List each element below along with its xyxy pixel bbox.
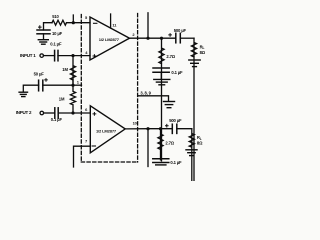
resistor R3 1M [70,73,75,113]
stub wire up from node E1 [147,13,149,38]
ground bar below C8 [156,164,166,166]
svg-text:10 µF: 10 µF [52,31,63,36]
ground for pins 3,8,9 [164,101,175,103]
svg-text:INPUT 1: INPUT 1 [20,53,36,58]
capacitor C8 0.1uF [153,159,169,163]
wire node C to pin 1 [73,84,82,86]
wire pins 3,8,9 to ground [138,96,169,101]
resistor RL2 8 ohm [189,129,194,192]
U1 non-inverting input sign [93,55,96,58]
pin 11 V+ wire [110,14,112,28]
wire output pin 2 [130,37,149,39]
IC package boundary dashed left edge [80,15,82,163]
wire C1 top to R1 [44,23,53,30]
op-amp U1 1/2 LM2877 [90,17,130,60]
V+ stub wire up from node A [72,15,74,23]
capacitor C3 50uF [39,79,48,91]
resistor RL1 8 ohm [191,38,196,194]
wire C1 bottom to ground [43,34,45,40]
wire C2 to pin 4 [58,55,90,57]
svg-text:500 µF: 500 µF [169,118,182,123]
input 2 terminal circle [40,111,44,115]
svg-text:1M: 1M [62,67,68,72]
svg-text:50 µF: 50 µF [34,72,45,77]
node R4 junction dot [160,37,163,40]
wire C6 to RL2 [177,128,192,130]
capacitor C1 10uF [37,26,50,34]
svg-text:2.7Ω: 2.7Ω [165,141,174,146]
svg-text:0.1 µF: 0.1 µF [171,70,183,75]
ground below RL1 [189,59,200,61]
wire C5 to RL1 [180,37,194,39]
svg-text:0.1 µF: 0.1 µF [50,41,62,46]
capacitor C7 0.1uF [153,68,169,72]
svg-text:1M: 1M [59,96,65,101]
svg-text:8Ω: 8Ω [200,50,206,55]
svg-text:0.1 µF: 0.1 µF [170,160,182,165]
wire output pin 10 [125,128,148,130]
svg-text:2.7Ω: 2.7Ω [166,54,175,59]
wire input 2 to C4 [44,112,55,114]
ground below C7 [154,78,170,80]
svg-text:0.1 µF: 0.1 µF [51,117,63,122]
wire input 1 to C2 [44,55,55,57]
node A junction dot [72,21,75,24]
resistor R4 2.7 ohm [159,38,164,161]
U1 inverting input sign [94,22,97,24]
svg-text:INPUT 2: INPUT 2 [16,110,32,115]
capacitor C4 0.1uF [55,108,58,118]
node C bias junction dot [71,84,74,87]
node D junction dot [71,111,74,114]
wire node E2 to C6 [148,128,172,130]
U2 inverting input sign [92,145,95,147]
ground below RL2 [186,149,197,151]
wire node C to C3 [43,84,73,86]
node R5 junction dot [159,127,162,130]
wire C4 to pin 6 [58,112,90,114]
svg-text:500 µF: 500 µF [174,28,187,33]
wire node E1 to C5 [148,37,176,39]
node B junction dot [71,54,74,57]
wire R1 to pin 5 [67,22,91,24]
capacitor C2 0.1uF [55,50,58,60]
op-amp U2 1/2 LM2877 [90,106,125,153]
svg-text:1/2 LM2877: 1/2 LM2877 [96,129,117,134]
ground at C3 [19,91,27,93]
ground below C1 [38,39,48,41]
wire pin 7 left and down [74,146,91,167]
node E2 output junction dot [146,127,149,130]
wire C3 to ground [23,85,38,91]
capacitor C5 500uF [169,33,181,43]
U2 non-inverting input sign [93,113,96,116]
node E1 output junction dot [146,37,149,40]
IC package boundary dashed right edge [137,14,139,163]
input 1 terminal circle [40,54,44,58]
IC package boundary dashed bottom edge [81,161,137,163]
capacitor C6 500uF [166,124,177,133]
svg-text:510: 510 [52,14,59,19]
svg-text:8Ω: 8Ω [197,140,203,145]
stub wire down from node E2 [147,129,149,167]
resistor R1 510 [52,20,67,25]
resistor R2 1M [70,56,75,86]
wire C7 to ground [160,72,162,79]
svg-text:1/2 LM2877: 1/2 LM2877 [99,37,120,42]
resistor R5 2.7 ohm [158,129,163,161]
svg-text:3, 8, 9: 3, 8, 9 [140,91,151,96]
